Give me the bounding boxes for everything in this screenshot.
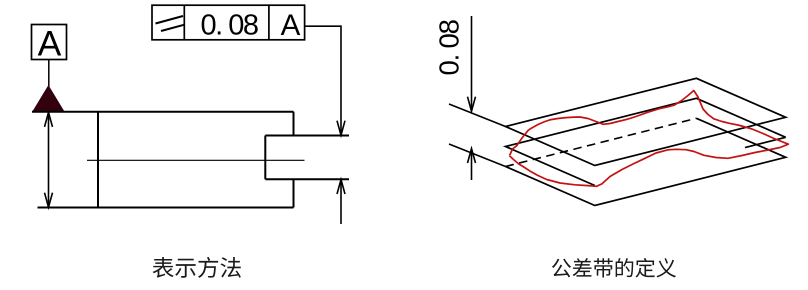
height dimension line — [48, 113, 50, 207]
centerline — [87, 159, 305, 161]
slot top edge + extension — [265, 135, 349, 137]
svg-text:A: A — [281, 9, 301, 42]
svg-text:A: A — [38, 24, 62, 64]
feature control frame box — [152, 5, 305, 40]
part right edge upper — [293, 112, 295, 136]
lower indicator wire — [340, 180, 342, 224]
middle ideal plane (partial) — [506, 98, 786, 185]
frame divider 1 — [183, 5, 185, 40]
upper extension line — [449, 104, 506, 127]
svg-text:0. 08: 0. 08 — [434, 19, 465, 75]
caption: biao shi fang fa — [153, 257, 241, 278]
datum label box A — [32, 25, 67, 60]
caption: gong cha dai de ding yi — [552, 258, 676, 278]
part left edge — [97, 112, 99, 208]
dimension line lower — [471, 149, 473, 180]
part bottom edge + extension line — [38, 207, 294, 209]
middle plane front edge stub — [745, 137, 786, 147]
upper tolerance plane — [506, 78, 786, 165]
slot bottom edge + extension — [265, 178, 349, 180]
actual surface (red wavy) — [510, 91, 789, 187]
lower indicator arrowhead up — [337, 180, 345, 195]
datum triangle (filled) — [33, 86, 64, 112]
parallelism symbol — [156, 16, 185, 31]
lower tolerance plane (front edges) — [506, 118, 786, 205]
lower extension line — [449, 144, 506, 167]
part top edge + datum extension line — [32, 111, 294, 113]
slot back (left) edge — [264, 136, 266, 180]
leader arrowhead down — [337, 121, 345, 136]
lower plane hidden back edge (dashed) — [506, 118, 697, 166]
leader wire from frame — [305, 26, 341, 134]
frame divider 2 — [268, 5, 270, 40]
dimension arrowhead up — [468, 149, 476, 164]
svg-text:0. 08: 0. 08 — [201, 10, 258, 42]
dimension arrowhead up — [45, 112, 53, 127]
part right edge lower — [293, 179, 295, 207]
datum stem wire — [48, 60, 50, 88]
dimension arrowhead down — [468, 97, 476, 112]
dimension arrowhead down — [45, 193, 53, 208]
dimension line upper (0.08) — [471, 16, 473, 111]
